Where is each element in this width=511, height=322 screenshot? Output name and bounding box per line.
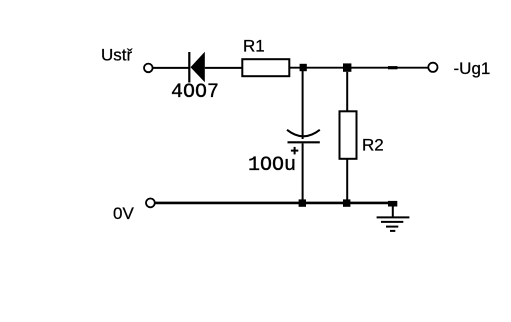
terminal 0V open circle [146, 199, 155, 208]
svg-text:1OOu: 1OOu [248, 154, 296, 177]
ground stem [392, 206, 394, 217]
svg-text:Ustř: Ustř [101, 46, 133, 65]
svg-text:R2: R2 [362, 135, 384, 154]
svg-text:4OO7: 4OO7 [171, 81, 219, 104]
terminal -Ug1 open circle [428, 63, 437, 72]
diode D1 triangle [191, 52, 205, 82]
wire from R1 to output terminal [289, 67, 428, 69]
junction node D (R2 to 0V rail) [343, 199, 350, 206]
wire 0V rail [155, 202, 397, 205]
junction node B (top of R2) [343, 63, 351, 71]
wire from node B down to resistor R2 [346, 72, 348, 112]
terminal Ustr open circle [144, 64, 153, 73]
resistor R1 body [242, 59, 289, 76]
ground bar 4 [390, 230, 395, 232]
svg-text:R1: R1 [243, 36, 265, 55]
wire from diode to resistor R1 [205, 67, 243, 69]
ground bar 3 [386, 226, 398, 228]
ground bar 1 [377, 216, 410, 218]
wire from node A down to capacitor C1 [302, 71, 304, 139]
capacitor C1 plus polarity mark [291, 150, 298, 152]
capacitor C1 curved plate [287, 130, 320, 137]
svg-text:-Ug1: -Ug1 [454, 59, 491, 78]
wire from Ustr terminal to diode [153, 67, 189, 69]
capacitor C1 straight plate [288, 141, 320, 143]
ground connection pad [388, 201, 397, 207]
diode D1 cathode bar [188, 52, 190, 83]
wire overlap dash near output [388, 66, 398, 69]
junction node A (top of capacitor) [300, 64, 307, 71]
resistor R2 body [340, 111, 357, 159]
junction node C (capacitor to 0V rail) [299, 199, 306, 206]
wire from capacitor C1 down to 0V rail [302, 143, 304, 203]
ground bar 2 [381, 221, 403, 223]
wire from R2 down to 0V rail [346, 159, 348, 203]
svg-text:0V: 0V [113, 204, 134, 223]
